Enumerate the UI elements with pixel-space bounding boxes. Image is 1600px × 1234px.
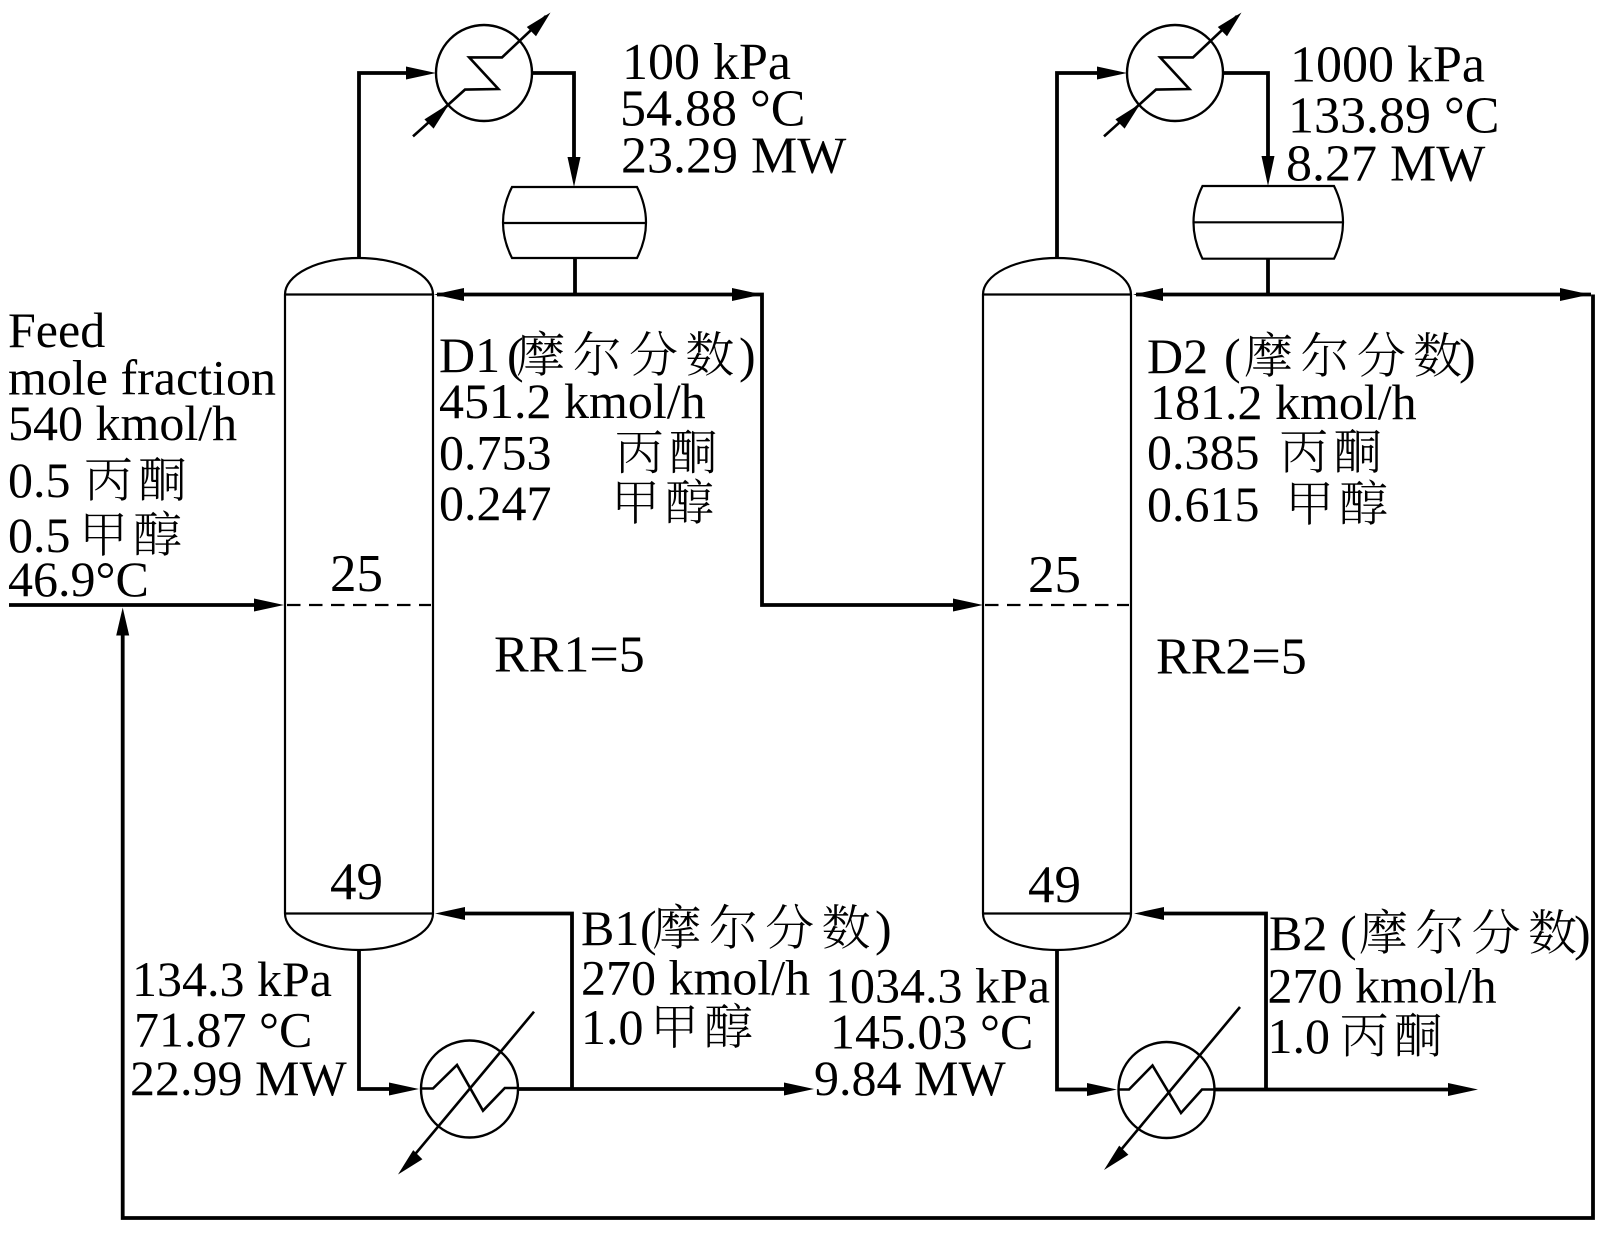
svg-text:(: ( <box>640 900 657 956</box>
wire B1 product <box>518 1087 788 1091</box>
svg-text:23.29 MW: 23.29 MW <box>621 128 846 185</box>
arrow B2 product out <box>1448 1083 1478 1096</box>
reflux drum V1 <box>503 187 646 258</box>
arrow into drum V2 <box>1262 156 1275 186</box>
svg-text:8.27 MW: 8.27 MW <box>1286 136 1485 193</box>
svg-text:49: 49 <box>1028 856 1081 914</box>
svg-text:(: ( <box>1340 905 1357 961</box>
arrow B2 return into C2 <box>1134 907 1164 920</box>
svg-text:RR2=5: RR2=5 <box>1156 629 1307 686</box>
svg-text:1000 kPa: 1000 kPa <box>1290 37 1485 94</box>
svg-text:RR1=5: RR1=5 <box>494 627 645 684</box>
condenser HX1 inlet arrow <box>424 104 449 129</box>
svg-text:25: 25 <box>1028 546 1081 604</box>
svg-text:270 kmol/h: 270 kmol/h <box>1268 958 1497 1014</box>
svg-text:9.84 MW: 9.84 MW <box>814 1050 1006 1106</box>
svg-text:B1: B1 <box>581 900 639 956</box>
svg-text:B2: B2 <box>1269 905 1327 961</box>
svg-text:0.385: 0.385 <box>1147 424 1260 480</box>
feed stage dashed line C1 <box>287 604 431 606</box>
reboiler HX4 <box>1110 1007 1240 1163</box>
arrow D2 into recycle corner <box>1560 288 1590 301</box>
reboiler HX3 heat arrow <box>398 1150 422 1174</box>
wire recycle loop <box>123 295 1593 1219</box>
arrow recycle up into feed <box>116 608 129 636</box>
condenser HX2 inlet arrow <box>1115 104 1140 129</box>
reboiler HX3 <box>404 1012 534 1168</box>
wire B2 product <box>1215 1088 1453 1092</box>
svg-text:181.2 kmol/h: 181.2 kmol/h <box>1150 374 1417 430</box>
arrow D1 at corner <box>732 288 762 301</box>
arrow into HX1 <box>406 67 436 80</box>
condenser HX1 <box>413 16 546 136</box>
feed stage dashed line C2 <box>985 604 1129 606</box>
wire HX1 to drum V1 <box>532 73 574 162</box>
arrow D1 feed into C2 <box>953 599 983 612</box>
condenser HX2 <box>1104 16 1237 136</box>
arrow into HX2 <box>1097 67 1127 80</box>
wire C1 bottoms to reboiler <box>359 950 393 1089</box>
arrow into HX4 <box>1087 1083 1117 1096</box>
column C2 shell <box>983 258 1131 950</box>
wire C2 bottoms to reboiler <box>1057 950 1091 1090</box>
svg-text:22.99 MW: 22.99 MW <box>130 1050 347 1106</box>
column C1 shell <box>285 258 433 950</box>
svg-text:451.2 kmol/h: 451.2 kmol/h <box>439 373 706 429</box>
svg-text:): ) <box>739 327 756 383</box>
svg-text:134.3 kPa: 134.3 kPa <box>132 951 332 1007</box>
wire D1 reflux/distillate line <box>437 295 957 606</box>
arrow B1 product out <box>784 1083 814 1096</box>
wire C1 overhead vapor <box>359 73 410 259</box>
svg-text:0.615: 0.615 <box>1147 476 1260 532</box>
wire B2 vapor return <box>1160 914 1266 1090</box>
condenser HX2 outlet arrow <box>1218 13 1242 37</box>
svg-text:46.9°C: 46.9°C <box>8 551 149 607</box>
svg-text:25: 25 <box>330 545 383 603</box>
svg-text:): ) <box>1574 905 1591 961</box>
wire fresh feed <box>9 603 258 607</box>
svg-text:540 kmol/h: 540 kmol/h <box>8 395 237 451</box>
wire drum V1 to D1 line <box>573 258 577 295</box>
reboiler HX4 heat arrow <box>1104 1146 1128 1170</box>
wire HX2 to drum V2 <box>1223 73 1268 161</box>
svg-text:49: 49 <box>330 853 383 911</box>
arrow D1 reflux into C1 <box>434 288 464 301</box>
wire B1 vapor return <box>461 914 572 1090</box>
svg-text:0.753: 0.753 <box>439 425 552 481</box>
arrow D2 reflux into C2 <box>1133 288 1163 301</box>
condenser HX1 outlet arrow <box>527 13 551 37</box>
wire D2 distillate line <box>1136 293 1591 297</box>
arrow B1 return into C1 <box>435 907 465 920</box>
svg-text:0.5: 0.5 <box>8 452 71 508</box>
arrow into HX3 <box>389 1083 419 1096</box>
svg-text:): ) <box>1459 328 1476 384</box>
arrow into drum V1 <box>568 157 581 187</box>
svg-text:1.0: 1.0 <box>1268 1008 1331 1064</box>
wire drum V2 to D2 line <box>1266 259 1270 295</box>
svg-text:0.247: 0.247 <box>439 475 552 531</box>
arrow feed into C1 <box>254 599 284 612</box>
reflux drum V2 <box>1194 186 1344 259</box>
svg-text:): ) <box>875 900 892 956</box>
svg-text:270 kmol/h: 270 kmol/h <box>581 950 810 1006</box>
wire C2 overhead vapor <box>1057 73 1101 259</box>
svg-text:1.0: 1.0 <box>581 999 644 1055</box>
